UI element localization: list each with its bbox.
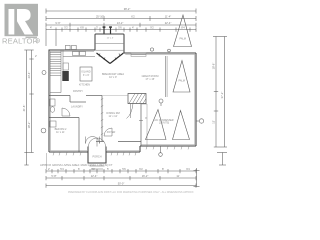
svg-text:9'-6": 9'-6": [55, 21, 60, 25]
svg-text:23'-4": 23'-4": [27, 72, 31, 79]
svg-text:LAUNDRY: LAUNDRY: [71, 106, 83, 109]
window hatch right of bay: [131, 53, 146, 56]
entry double doors: [89, 138, 106, 147]
staircase top-left: [50, 50, 63, 93]
bottom wall left segment: [49, 151, 88, 153]
right dimension chain: [213, 37, 227, 148]
dim line 3: [46, 185, 196, 187]
bay sill line: [95, 43, 124, 45]
svg-text:6'2: 6'2: [139, 167, 143, 171]
house/patio divider lower: [140, 104, 142, 146]
hatch ticks along bottom walls: [53, 147, 189, 156]
svg-text:(2 UNITS): (2 UNITS): [159, 123, 170, 125]
svg-text:50'-0": 50'-0": [118, 181, 125, 185]
top wall left segment: [49, 49, 96, 51]
svg-text:FOYER: FOYER: [107, 131, 116, 134]
svg-text:REALTOR: REALTOR: [2, 37, 39, 46]
svg-text:11'-4": 11'-4": [165, 14, 171, 18]
patio wall tick + label: [139, 120, 143, 122]
left wall: [48, 50, 50, 152]
svg-text:16'-2": 16'-2": [142, 174, 149, 178]
svg-text:KITCHEN: KITCHEN: [79, 84, 90, 87]
bay post markers: [104, 28, 111, 35]
white R bowl and leg: [17, 9, 33, 35]
logo square: [5, 4, 39, 36]
svg-text:12': 12': [212, 120, 216, 124]
dim line 2: [46, 177, 196, 179]
bath wall: [50, 117, 80, 119]
svg-text:14'-2": 14'-2": [117, 21, 124, 25]
foyer walls: [96, 141, 104, 143]
white R stem: [9, 9, 15, 35]
svg-text:37'-2": 37'-2": [220, 92, 224, 99]
interior partition walls: [50, 56, 168, 152]
svg-text:PALM: PALM: [179, 80, 185, 83]
svg-text:3' x 6': 3' x 6': [83, 74, 90, 77]
tree triangle patio right: [173, 111, 190, 140]
entry porch: [88, 147, 106, 164]
svg-text:5'-8": 5'-8": [51, 174, 56, 178]
extension lines: [45, 32, 47, 46]
bath fixtures: [50, 99, 70, 127]
dim line 1: [46, 170, 196, 172]
kitchen/hall wall: [50, 95, 71, 97]
dim line 1: [46, 10, 196, 12]
inner wall shadow lines: [50, 51, 195, 151]
kitchen/dining wall extension: [102, 95, 128, 97]
right wall: [195, 53, 197, 146]
bottom wall right segment: [106, 151, 140, 153]
svg-text:18'-6": 18'-6": [212, 63, 216, 70]
svg-text:18'-2": 18'-2": [27, 122, 31, 129]
svg-text:6'2: 6'2: [131, 14, 135, 18]
svg-text:38'-2": 38'-2": [124, 7, 131, 11]
trademark mini text: [26, 37, 38, 39]
bay vault marker V: [97, 53, 124, 64]
vent boxes above kitchen wall: [66, 45, 71, 49]
svg-text:5'6: 5'6: [118, 25, 122, 29]
svg-text:A/C CONDENSER: A/C CONDENSER: [154, 119, 173, 122]
top dim labels: [50, 7, 185, 30]
step between patio and house: [139, 146, 141, 152]
patio bottom wall: [140, 145, 196, 147]
svg-text:PALM: PALM: [180, 38, 186, 41]
bedroom closet double doors: [86, 137, 100, 144]
tree triangle patio left: [146, 110, 167, 140]
dim line 3: [46, 24, 196, 26]
svg-text:12' x 4': 12' x 4': [107, 38, 114, 40]
svg-text:11': 11': [176, 174, 180, 178]
tree triangle porch: [173, 61, 190, 93]
lower-right small dims: [194, 153, 228, 187]
bottom dimension chain: [46, 169, 196, 188]
svg-text:12'-4": 12'-4": [91, 174, 98, 178]
tree triangle top: [174, 15, 192, 47]
extension line bottom-left corner: [46, 153, 48, 169]
svg-text:5'6: 5'6: [122, 167, 126, 171]
dim line 2: [46, 18, 196, 20]
svg-text:9'2: 9'2: [150, 25, 154, 29]
svg-text:10' x 9': 10' x 9': [109, 76, 117, 79]
svg-text:41'-6": 41'-6": [22, 105, 26, 112]
svg-text:9'4: 9'4: [186, 167, 190, 171]
breakfast bay: [95, 34, 124, 53]
porch stoop steps: [90, 166, 105, 169]
laundry wall: [70, 101, 86, 103]
room labels: [55, 38, 159, 159]
top wall right segment: [124, 52, 196, 54]
svg-text:5'2: 5'2: [64, 25, 68, 29]
svg-text:PREPARED BY FLOORPLANS FIRST L: PREPARED BY FLOORPLANS FIRST LLC FOR MAR…: [68, 191, 194, 194]
svg-text:11' x 12': 11' x 12': [109, 115, 118, 118]
hall wall: [101, 96, 103, 142]
svg-text:PORCH: PORCH: [92, 156, 101, 159]
building exterior walls: [49, 34, 197, 163]
wall symbols: circles: [41, 48, 204, 156]
svg-text:PANTRY: PANTRY: [73, 90, 83, 93]
REALTOR watermark logo: [2, 4, 40, 46]
left dimension chain: [24, 50, 33, 165]
svg-text:5'4: 5'4: [60, 167, 64, 171]
top dimension chain: [46, 9, 196, 47]
kitchen counter: [63, 52, 95, 57]
svg-text:17' x 15': 17' x 15': [145, 78, 155, 81]
main stair center: [127, 94, 147, 119]
svg-text:8'4: 8'4: [181, 25, 185, 29]
svg-text:25'-10": 25'-10": [96, 14, 104, 18]
kitchen island: [80, 67, 92, 81]
refrigerator dark block: [62, 71, 69, 81]
svg-text:22'-4": 22'-4": [165, 21, 172, 25]
dim line 4: [46, 29, 196, 31]
hall door arc: [104, 128, 112, 136]
wall hatch ticks on hall wall: [101, 99, 103, 136]
svg-text:6'8: 6'8: [80, 25, 84, 29]
house/patio divider upper: [165, 56, 167, 97]
svg-text:11' x 11': 11' x 11': [56, 131, 65, 134]
